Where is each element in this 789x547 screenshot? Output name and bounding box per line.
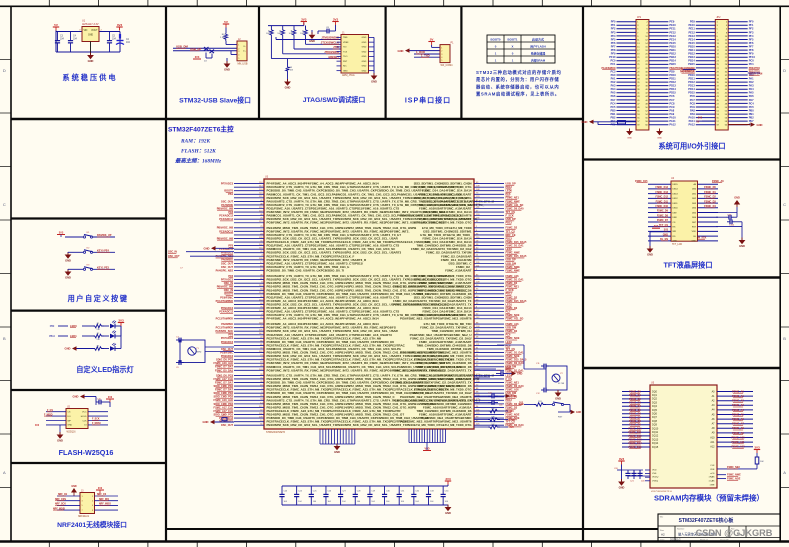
svg-text:PD11: PD11 (669, 76, 676, 80)
svg-text:GND: GND (673, 241, 678, 243)
svg-text:8MHz: 8MHz (196, 351, 201, 353)
svg-text:PC5: PC5 (749, 105, 755, 109)
capacitor C3 (55, 32, 65, 53)
svg-text:PF6: PF6 (749, 41, 754, 45)
svg-text:PA1: PA1 (611, 76, 616, 80)
svg-text:PA11: PA11 (669, 119, 676, 123)
svg-text:TDO: TDO (343, 56, 348, 58)
svg-text:PF9: PF9 (611, 52, 616, 56)
svg-text:PB0: PB0 (50, 325, 55, 328)
power port 5V ISP (428, 37, 440, 47)
svg-text:MN_USB: MN_USB (238, 63, 248, 66)
svg-text:TFT_LCD: TFT_LCD (672, 244, 682, 246)
svg-text:GND: GND (362, 70, 367, 72)
svg-text:DQ6: DQ6 (652, 413, 658, 416)
svg-text:PB2: PB2 (610, 116, 616, 120)
ground JTAG connector (371, 73, 378, 84)
power port 3V3 JTAG (301, 17, 307, 25)
svg-text:PA4/SPI1_NSS: PA4/SPI1_NSS (216, 269, 234, 272)
JP1 right pin labels (669, 20, 680, 127)
svg-text:PE14: PE14 (688, 37, 695, 41)
svg-text:PE10: PE10 (688, 23, 695, 27)
svg-text:STM32F407ZET6: STM32F407ZET6 (266, 431, 286, 434)
svg-text:PC8: PC8 (669, 101, 675, 105)
svg-text:PC9: PC9 (669, 105, 675, 109)
ground FLASH bottom (57, 425, 64, 443)
svg-text:TFT液晶屏接口: TFT液晶屏接口 (663, 261, 712, 270)
svg-text:PF2: PF2 (611, 27, 616, 31)
svg-text:3V3: 3V3 (118, 318, 124, 322)
svg-text:PF8: PF8 (611, 48, 616, 52)
svg-text:OSC_OUT: OSC_OUT (221, 424, 234, 427)
svg-text:PC4: PC4 (610, 101, 616, 105)
svg-text:DB10: DB10 (673, 208, 679, 210)
svg-text:PE15: PE15 (669, 41, 676, 45)
svg-text:PF3: PF3 (749, 30, 754, 34)
svg-text:PB11: PB11 (688, 48, 695, 52)
svg-text:PB12: PB12 (669, 52, 676, 56)
svg-text:GND: GND (224, 68, 230, 72)
svg-text:PC13/TAMPER: PC13/TAMPER (216, 327, 234, 330)
svg-text:PG9/FSMC: PG9/FSMC (220, 296, 233, 299)
svg-text:GND: GND (398, 49, 404, 53)
svg-text:PF1: PF1 (611, 23, 616, 27)
svg-text:PD13: PD13 (688, 84, 695, 88)
svg-text:B: B (3, 336, 6, 341)
svg-text:VCC: VCC (82, 412, 87, 414)
svg-text:OSC_OUT: OSC_OUT (221, 262, 234, 265)
svg-text:DB13: DB13 (673, 193, 679, 195)
svg-text:PB10: PB10 (688, 44, 695, 48)
MCU left pin net labels (214, 183, 234, 428)
MCU left extra net labels (168, 251, 234, 259)
svg-text:DB15: DB15 (673, 184, 679, 186)
svg-text:PB15: PB15 (688, 62, 695, 66)
svg-text:3V3: 3V3 (510, 427, 515, 429)
svg-text:PD10: PD10 (669, 73, 676, 77)
svg-text:PF4: PF4 (749, 34, 754, 38)
JP1 right pin wires (649, 22, 669, 125)
svg-text:PG9/FSMC_NE2_USART6PG9/FSMC_NE: PG9/FSMC_NE2_USART6PG9/FSMC_NE2_USART6 (400, 317, 472, 321)
MCU bottom VDD pin wires group 2 (409, 429, 445, 451)
svg-text:3V3: 3V3 (35, 425, 40, 427)
BOOT mode table (487, 35, 555, 63)
svg-text:PE9: PE9 (690, 20, 695, 24)
svg-text:GND: GND (73, 395, 79, 399)
svg-text:PC5: PC5 (610, 105, 616, 109)
svg-text:DQ10: DQ10 (652, 427, 659, 430)
wire JTAG pull-up bus (268, 23, 306, 29)
crystal Y1 circuit (176, 268, 234, 370)
svg-text:PC1: PC1 (749, 62, 755, 66)
svg-text:DO: DO (68, 416, 72, 418)
regulator U1 AMS1117-3.3V (79, 20, 102, 42)
svg-text:PB14: PB14 (688, 59, 695, 63)
svg-text:PE13: PE13 (669, 34, 676, 38)
svg-text:DQ11: DQ11 (652, 431, 659, 434)
svg-text:PF7/ADC3: PF7/ADC3 (221, 337, 234, 340)
capacitor C4 (68, 32, 78, 53)
svg-text:PC0: PC0 (610, 59, 616, 63)
svg-text:DQ4: DQ4 (652, 405, 658, 408)
svg-text:10K: 10K (760, 461, 764, 463)
svg-text:DQ13: DQ13 (652, 438, 659, 441)
svg-text:GND: GND (657, 138, 662, 140)
svg-text:GND: GND (362, 42, 367, 44)
svg-text:PF7: PF7 (749, 44, 754, 48)
svg-text:PC7: PC7 (690, 98, 696, 102)
svg-text:用户自定义按键: 用户自定义按键 (67, 294, 129, 303)
svg-text:PB13: PB13 (688, 55, 695, 59)
svg-text:启动方式: 启动方式 (532, 37, 544, 42)
capacitor C21 SDRAM (630, 470, 637, 483)
svg-text:GND: GND (88, 59, 94, 63)
svg-text:PF0: PF0 (749, 20, 754, 24)
svg-text:DB14: DB14 (673, 189, 679, 191)
svg-text:PB1: PB1 (228, 193, 233, 196)
JP1 left pin labels (602, 20, 617, 127)
svg-text:PB0/ADC_IN8: PB0/ADC_IN8 (217, 227, 234, 230)
svg-text:GND: GND (739, 244, 745, 248)
svg-text:5V: 5V (54, 23, 58, 27)
svg-text:PF0: PF0 (611, 20, 616, 24)
svg-text:GND: GND (65, 347, 71, 351)
svg-text:JP1: JP1 (637, 16, 642, 19)
svg-text:nCS: nCS (710, 473, 715, 475)
svg-text:FLASH：512K: FLASH：512K (181, 149, 216, 155)
svg-text:GND: GND (362, 47, 367, 49)
svg-text:STM32-USB Slave接口: STM32-USB Slave接口 (179, 96, 251, 105)
svg-text:HOLD: HOLD (81, 416, 87, 418)
svg-text:BOOT0: BOOT0 (491, 38, 501, 42)
svg-text:PE15: PE15 (688, 41, 695, 45)
svg-text:PC0: PC0 (749, 59, 755, 63)
svg-text:PF9: PF9 (749, 52, 754, 56)
svg-text:GND: GND (734, 197, 740, 200)
svg-text:PF1: PF1 (749, 23, 754, 27)
svg-text:C104: C104 (729, 224, 735, 226)
svg-text:GND: GND (576, 412, 581, 414)
svg-text:CLK: CLK (82, 420, 87, 422)
svg-text:PF7: PF7 (611, 44, 616, 48)
svg-text:PC6: PC6 (690, 94, 696, 98)
SDRAM left data wires (622, 392, 650, 448)
FLASH left wires (35, 410, 66, 427)
svg-text:PA4: PA4 (749, 87, 754, 91)
svg-text:3V3: 3V3 (301, 17, 307, 21)
resistor R4 1.5K (220, 28, 237, 45)
svg-text:PE10: PE10 (669, 23, 676, 27)
ground TFT right bottom (739, 238, 746, 249)
wire JTAG signal wires (271, 37, 341, 66)
svg-text:PA3: PA3 (749, 84, 754, 88)
svg-text:GND: GND (203, 420, 209, 424)
title block (658, 514, 780, 542)
MCU internal pin name text (267, 182, 495, 428)
SDRAM right net labels (731, 390, 745, 448)
svg-text:PE12: PE12 (688, 30, 695, 34)
svg-text:nWE: nWE (710, 485, 715, 487)
ground TFT right top (734, 197, 740, 208)
svg-text:VDDQ: VDDQ (652, 477, 659, 479)
svg-text:PB1: PB1 (610, 112, 616, 116)
MCU U3 STM32F407ZET6 block (264, 176, 474, 435)
svg-text:内部SRAM: 内部SRAM (531, 57, 546, 62)
svg-text:PF2: PF2 (749, 27, 754, 31)
SDRAM right address wires (717, 392, 753, 447)
svg-text:PA1: PA1 (749, 76, 754, 80)
JP2 long net labels (681, 68, 763, 75)
button K3 KEY1 row (65, 264, 115, 279)
capacitor C17 TFT (727, 219, 742, 226)
MCU right pin net labels (506, 183, 527, 428)
svg-text:FSMC_A10/USART: FSMC_A10/USART (445, 268, 471, 272)
svg-text:3V3: 3V3 (619, 457, 625, 461)
ground JTAG bottom-left (284, 79, 291, 90)
button K1 WK_UP row (57, 232, 115, 238)
svg-text:RAM：192K: RAM：192K (180, 139, 210, 145)
svg-text:GND: GND (88, 35, 93, 37)
TFT right side wires to ground (716, 207, 742, 240)
svg-text:A: A (783, 470, 786, 475)
svg-text:PB10: PB10 (49, 335, 56, 338)
svg-text:GND: GND (627, 138, 632, 140)
ESD diodes D1 D2 (204, 47, 214, 63)
wire USB data lines (173, 48, 237, 54)
svg-text:PD9: PD9 (669, 69, 675, 73)
svg-text:GND: GND (362, 37, 367, 39)
svg-text:GND: GND (555, 397, 561, 401)
svg-text:PD15: PD15 (669, 91, 676, 95)
svg-text:置SRAM启动调试程序，见上表所示。: 置SRAM启动调试程序，见上表所示。 (476, 91, 560, 98)
svg-text:3V3: 3V3 (117, 23, 123, 27)
svg-text:LED1: LED1 (70, 334, 77, 338)
svg-text:GND: GND (65, 276, 71, 280)
JP2 right pin wires (728, 22, 748, 125)
svg-text:PA9: PA9 (690, 112, 695, 116)
svg-text:ISP串口接口: ISP串口接口 (405, 96, 451, 105)
svg-text:STM32F407ZET6主控: STM32F407ZET6主控 (168, 125, 234, 134)
ground (87, 53, 94, 64)
svg-text:PF4/FSMC_A4_ADC3_IN14PF4/FSMC_: PF4/FSMC_A4_ADC3_IN14PF4/FSMC_A4_ADC3_IN… (267, 317, 380, 321)
svg-text:GND: GND (68, 425, 73, 427)
svg-text:RST: RST (558, 417, 563, 419)
capacitor C5 (107, 32, 117, 53)
svg-text:最高主频：168MHz: 最高主频：168MHz (175, 158, 222, 165)
svg-text:PA2: PA2 (749, 80, 754, 84)
svg-text:5V: 5V (224, 20, 228, 24)
svg-text:DQ8: DQ8 (652, 420, 658, 423)
svg-text:CLK: CLK (710, 465, 715, 467)
svg-text:PC4/ADC12: PC4/ADC12 (219, 215, 233, 218)
connector JP1 pin header (636, 16, 649, 130)
svg-text:PB11: PB11 (669, 48, 676, 52)
svg-text:PA5: PA5 (611, 91, 616, 95)
svg-text:GND: GND (691, 241, 696, 243)
svg-text:PF8: PF8 (749, 48, 754, 52)
TFT right pin wires (698, 184, 719, 241)
svg-text:GND: GND (57, 439, 63, 443)
svg-text:PB0: PB0 (610, 108, 616, 112)
svg-text:PA11: PA11 (689, 119, 696, 123)
svg-text:N/C: N/C (343, 66, 347, 68)
svg-text:JTCK/SWCLK: JTCK/SWCLK (321, 41, 339, 45)
svg-text:PA0: PA0 (611, 73, 616, 77)
svg-text:PB10: PB10 (669, 44, 676, 48)
wire regulator ground (90, 42, 92, 56)
svg-text:RD: RD (673, 236, 677, 238)
svg-text:3V3: 3V3 (445, 477, 451, 481)
svg-text:PA12: PA12 (689, 123, 696, 127)
svg-text:PB15: PB15 (669, 62, 676, 66)
svg-text:PB14: PB14 (669, 59, 676, 63)
svg-text:TCK: TCK (343, 51, 348, 53)
power port 3V3 right (318, 17, 339, 34)
svg-text:RST: RST (692, 226, 697, 228)
LED D4 row (49, 326, 121, 341)
svg-text:JTAG/SWD调试接口: JTAG/SWD调试接口 (303, 95, 366, 104)
svg-text:TMS: TMS (343, 37, 348, 39)
MCU heading text (168, 125, 234, 165)
connector J3 NRF24L01 (78, 491, 95, 519)
power input port 5V (53, 23, 59, 31)
ground FLASH top (73, 394, 96, 402)
svg-text:GND: GND (65, 259, 71, 263)
svg-text:PF10: PF10 (749, 55, 756, 59)
svg-text:VREF: VREF (343, 42, 349, 44)
svg-text:STM32三种启动模式对应的存储介质均: STM32三种启动模式对应的存储介质均 (476, 69, 562, 76)
svg-text:A10: A10 (710, 436, 715, 439)
svg-text:DQ15: DQ15 (652, 446, 659, 449)
MCU left pin wires (234, 182, 264, 426)
svg-text:PC7: PC7 (669, 98, 675, 102)
svg-text:TDI: TDI (343, 47, 347, 49)
svg-text:用户FLASH: 用户FLASH (529, 43, 545, 48)
svg-text:PD10: PD10 (688, 73, 695, 77)
svg-text:PC3: PC3 (610, 69, 616, 73)
svg-text:PF7/ADC3: PF7/ADC3 (221, 183, 234, 186)
svg-text:PC9: PC9 (690, 105, 696, 109)
ground TFT bottom left (647, 246, 654, 257)
svg-text:FSMC_D2_DA2/USART3_TXFSMC_D2_D: FSMC_D2_DA2/USART3_TXFSMC_D2_DA2/USART3_… (393, 368, 471, 372)
ground JP1 arrows (626, 129, 663, 140)
capacitor C15 FLASH (96, 399, 110, 408)
svg-text:DB12: DB12 (673, 198, 679, 200)
SDRAM left net labels (628, 390, 642, 449)
svg-text:STM32F407ZET6核心板: STM32F407ZET6核心板 (679, 517, 735, 524)
wire ISP serial wires (410, 51, 441, 58)
svg-text:SDRAM内存模块（预留未焊接）: SDRAM内存模块（预留未焊接） (654, 493, 764, 503)
svg-text:VDD: VDD (692, 231, 697, 233)
svg-text:CSDN @GJKGRB: CSDN @GJKGRB (696, 528, 773, 538)
svg-text:是芯片内置的，分别为：用户闪存存储: 是芯片内置的，分别为：用户闪存存储 (475, 76, 559, 83)
resistor R5-R8 10K pull-ups (266, 29, 307, 38)
svg-text:3V3: 3V3 (754, 445, 760, 449)
NRF right wires (95, 494, 119, 510)
svg-text:GND: GND (371, 80, 377, 84)
svg-text:A2: A2 (661, 533, 665, 537)
JP2 right pin labels (749, 20, 760, 127)
svg-text:PC6: PC6 (669, 94, 675, 98)
svg-text:GND: GND (511, 396, 516, 398)
svg-text:Sheet of: Sheet of (700, 539, 708, 542)
svg-text:VIN: VIN (84, 30, 88, 32)
MCU right pin wires (474, 182, 504, 426)
svg-text:PE11: PE11 (689, 27, 696, 31)
svg-text:D: D (783, 68, 786, 73)
svg-text:A: A (3, 470, 6, 475)
svg-text:GND: GND (757, 123, 763, 127)
svg-text:C: C (783, 202, 786, 207)
svg-text:5V: 5V (430, 37, 434, 41)
decoupling capacitor row C?x12 (279, 486, 449, 505)
ground cap row (445, 505, 452, 516)
svg-text:DQ0: DQ0 (652, 390, 658, 393)
svg-text:PF6: PF6 (611, 41, 616, 45)
LED D3 row (50, 321, 121, 331)
svg-text:PD14: PD14 (669, 87, 676, 91)
svg-text:ETH_MII_TXD0_OTGETH_MII_TXD0_O: ETH_MII_TXD0_OTGETH_MII_TXD0_OTG (414, 221, 472, 225)
svg-text:VOUT: VOUT (91, 30, 98, 32)
svg-text:PA6: PA6 (749, 94, 754, 98)
capacitor C20 SDRAM (614, 468, 631, 479)
svg-text:PB1: PB1 (749, 112, 755, 116)
ground USB (224, 58, 231, 72)
svg-text:PA6/MISO: PA6/MISO (221, 323, 233, 326)
LED D5 row (65, 326, 121, 351)
net labels JTAG signals (321, 36, 340, 59)
capacitors right-of-MCU cluster (474, 393, 516, 407)
svg-text:GND: GND (517, 373, 523, 376)
FLASH chip U2 W25Q16 (66, 407, 88, 434)
svg-text:nRAS: nRAS (709, 476, 715, 479)
svg-text:DQ7: DQ7 (652, 416, 658, 419)
svg-text:USB_DM: USB_DM (176, 45, 188, 49)
svg-text:WF_COM4: WF_COM4 (441, 64, 454, 67)
TFT right net labels (698, 180, 724, 240)
svg-text:GND: GND (343, 70, 348, 72)
svg-text:DQ12: DQ12 (652, 435, 659, 438)
svg-text:GND: GND (362, 66, 367, 68)
svg-text:PD14: PD14 (688, 87, 695, 91)
svg-text:系统稳压供电: 系统稳压供电 (62, 73, 117, 82)
svg-text:GND: GND (285, 86, 291, 90)
svg-text:Drawn By:: Drawn By: (720, 540, 730, 542)
resistor R9 10K (286, 66, 294, 81)
svg-text:PD12: PD12 (669, 80, 676, 84)
boot mode note text (475, 69, 562, 98)
SDRAM control wires right (717, 466, 757, 480)
FLASH right wires (88, 412, 108, 425)
power label 3V3 (193, 55, 201, 59)
svg-text:D-: D- (244, 46, 246, 48)
power 3V3 cap row (445, 477, 451, 486)
svg-text:PB2: PB2 (749, 116, 755, 120)
svg-text:B: B (783, 336, 786, 341)
svg-text:GND: GND (362, 61, 367, 63)
polarized capacitor C2 (116, 34, 131, 45)
svg-text:FLASH-W25Q16: FLASH-W25Q16 (59, 448, 114, 457)
svg-text:DQ9: DQ9 (652, 424, 658, 427)
connector J2 MINI-USB (237, 38, 248, 66)
svg-text:DQ5: DQ5 (652, 409, 658, 412)
svg-text:1.5K: 1.5K (220, 37, 225, 39)
svg-text:PF10: PF10 (609, 55, 616, 59)
svg-text:PE7: PE7 (611, 119, 616, 123)
svg-text:DQ2: DQ2 (652, 398, 658, 401)
ground JP1 bottom wires (582, 120, 636, 125)
power 3V3 FLASH (106, 396, 114, 402)
